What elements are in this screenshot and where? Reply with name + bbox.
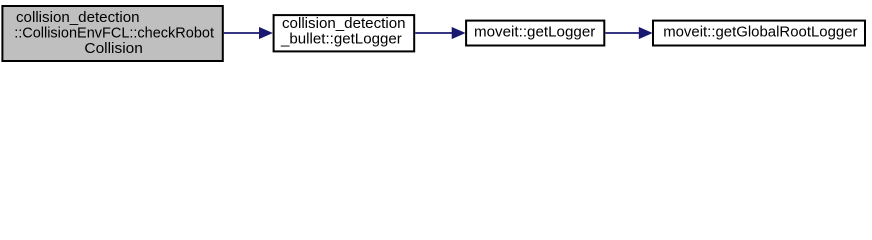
node Node4: moveit::getGlobalRootLogger <box>653 21 865 46</box>
svg-text:Collision: Collision <box>84 40 142 57</box>
svg-text:collision_detection: collision_detection <box>16 9 140 26</box>
node Node3: moveit::getLogger <box>466 21 604 46</box>
svg-text:collision_detection: collision_detection <box>282 15 406 32</box>
svg-text:moveit::getLogger: moveit::getLogger <box>474 24 595 41</box>
arrow Node3 -> Node4 <box>605 28 651 39</box>
svg-text:moveit::getGlobalRootLogger: moveit::getGlobalRootLogger <box>663 24 857 41</box>
node Node2: collision_detection_bullet::getLogger <box>274 15 415 52</box>
node Node1: collision_detection::CollisionEnvFCL::checkRobotCollision (current, grey) <box>2 6 222 61</box>
arrow Node2 -> Node3 <box>415 28 464 39</box>
svg-text:_bullet::getLogger: _bullet::getLogger <box>280 31 402 48</box>
arrow Node1 -> Node2 <box>224 28 272 39</box>
svg-text:::CollisionEnvFCL::checkRobot: ::CollisionEnvFCL::checkRobot <box>14 25 215 42</box>
